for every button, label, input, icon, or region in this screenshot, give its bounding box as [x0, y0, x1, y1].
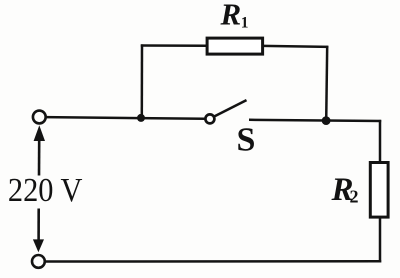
wire right vertical upper (corner to R2) [379, 120, 382, 163]
wire middle right (switch to right corner) [249, 120, 381, 121]
wire top left (corner to R1) [141, 44, 207, 47]
resistor R1 [207, 38, 263, 54]
arrow up (to top terminal) [34, 125, 45, 141]
node junction left [137, 114, 145, 122]
svg-text:S: S [237, 122, 256, 159]
wire left branch vertical (junction up to top corner) [141, 44, 144, 118]
switch S lever [214, 100, 247, 117]
wire right branch vertical (top corner down to junction) [326, 46, 327, 121]
svg-text:R: R [220, 0, 242, 32]
wire middle left (top terminal to switch) [46, 117, 205, 119]
svg-text:220 V: 220 V [8, 172, 83, 209]
source terminal bottom [32, 255, 45, 268]
source terminal top [33, 111, 46, 124]
resistor R2 [370, 163, 388, 218]
switch S contact circle [205, 114, 214, 123]
node junction right [322, 116, 331, 125]
arrow down (to bottom terminal) [33, 239, 44, 252]
wire right vertical lower (R2 to bottom corner) [379, 218, 382, 263]
svg-text:2: 2 [350, 187, 359, 207]
svg-text:1: 1 [241, 14, 249, 31]
wire bottom (right corner to bottom terminal) [45, 260, 381, 263]
wire top right (R1 to right corner) [263, 46, 328, 47]
